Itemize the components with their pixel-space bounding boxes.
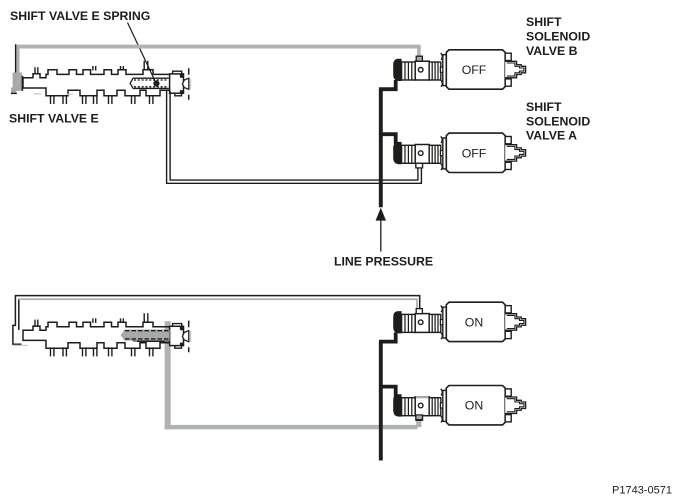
solenoid collar [429, 398, 441, 416]
svg-text:ON: ON [465, 315, 483, 329]
svg-text:SHIFT VALVE E SPRING: SHIFT VALVE E SPRING [10, 9, 150, 23]
valve port stubs (bottom) [51, 347, 54, 356]
svg-text:VALVE A: VALVE A [526, 129, 577, 143]
svg-text:SOLENOID: SOLENOID [526, 30, 590, 44]
valve body bottom edge [23, 337, 170, 348]
svg-text:SOLENOID: SOLENOID [526, 114, 590, 128]
gray accents under valve [34, 93, 73, 96]
gray terminal strip on solenoid A [416, 396, 429, 398]
wire: line pressure thick supply (bottom) [379, 342, 383, 461]
solenoid mounting bracket [443, 138, 447, 169]
valve body top edge [23, 70, 170, 85]
svg-text:SHIFT: SHIFT [526, 15, 562, 29]
solenoid valve B (bottom, ON) [393, 311, 401, 333]
svg-text:OFF: OFF [462, 146, 487, 160]
solenoid electrical connector [505, 145, 525, 162]
solenoid valve block with orifice [415, 61, 429, 80]
gray return line through valve (bottom) [165, 321, 171, 429]
valve body bottom edge [23, 85, 170, 96]
solenoid electrical connector [505, 397, 525, 414]
solenoid coil body [446, 50, 505, 89]
svg-text:OFF: OFF [462, 63, 487, 77]
solenoid connector tabs [505, 137, 511, 144]
solenoid collar [429, 314, 441, 332]
solenoid mounting bracket [443, 390, 447, 421]
valve port stubs (bottom) [51, 95, 54, 104]
wire: valve E to solenoid A (double line pipe) [167, 91, 422, 183]
spring ball [153, 80, 159, 86]
spring bore [133, 331, 169, 341]
svg-text:LINE PRESSURE: LINE PRESSURE [334, 255, 433, 269]
solenoid valve block with orifice [415, 314, 429, 333]
valve end cap [170, 74, 184, 93]
solenoid valve A (top, OFF) [393, 142, 401, 164]
svg-text:ON: ON [465, 399, 483, 413]
solenoid outlet port (bottom) [416, 416, 423, 421]
wire pair valve to solenoid B (bottom section) [13, 296, 420, 345]
solenoid collar [429, 145, 441, 163]
solenoid mounting bracket [443, 307, 447, 338]
solenoid coil body [446, 386, 505, 425]
gray accents bottom valve [190, 331, 192, 342]
gray return line to solenoid A (bottom) [165, 425, 418, 429]
svg-text:SHIFT: SHIFT [526, 100, 562, 114]
line pressure arrow [376, 208, 386, 221]
solenoid valve block with orifice [415, 145, 429, 164]
solenoid mounting bracket [443, 55, 447, 86]
port under solenoid A [416, 162, 423, 167]
valve body top edge [23, 322, 170, 337]
wire: line pressure thick supply [379, 89, 383, 207]
solenoid outlet port (bottom) [416, 163, 423, 168]
solenoid valve B (top, OFF) [393, 59, 401, 81]
svg-text:VALVE B: VALVE B [526, 44, 578, 58]
end cap retainer chevron [182, 331, 188, 342]
wire gray pilot line from valve E to solenoid B [16, 45, 421, 49]
solenoid connector tabs [505, 306, 511, 313]
valve end cap [170, 326, 184, 345]
solenoid threaded neck [402, 62, 416, 80]
solenoid threaded neck [402, 145, 416, 163]
solenoid connector tabs [505, 389, 511, 396]
solenoid coil body [446, 302, 505, 341]
solenoid electrical connector [505, 61, 525, 78]
solenoid inlet port (top) [416, 56, 422, 61]
solenoid threaded neck [402, 314, 416, 332]
spool (gray, shifted) [121, 330, 170, 341]
solenoid coil body [446, 133, 505, 172]
solenoid valve block with orifice [415, 397, 429, 416]
solenoid threaded neck [402, 398, 416, 416]
valve port stubs (top) [35, 320, 38, 327]
solenoid valve A (bottom, ON) [393, 394, 401, 416]
svg-text:SHIFT VALVE E: SHIFT VALVE E [9, 111, 99, 125]
end cap retainer chevron [182, 78, 188, 89]
solenoid inlet port (top) [416, 309, 422, 314]
svg-text:P1743-0571: P1743-0571 [612, 485, 672, 497]
valve port stubs (top) [35, 67, 38, 74]
solenoid collar [429, 62, 441, 80]
leader line to spring [128, 23, 156, 82]
plug (gray) [11, 73, 22, 94]
solenoid electrical connector [505, 314, 525, 331]
solenoid connector tabs [505, 53, 511, 60]
spring bore [133, 78, 169, 88]
